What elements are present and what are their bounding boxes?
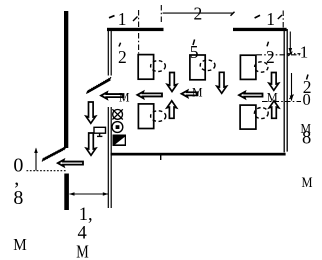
right dimension line 1 [288, 32, 301, 57]
flow arrow up center [167, 101, 177, 119]
wall top right segment [233, 28, 287, 31]
svg-text:5: 5 [190, 42, 199, 62]
control panel symbol [94, 127, 106, 136]
svg-text:М: М [192, 85, 203, 100]
flow arrow down right [269, 73, 279, 91]
dash-dot tick above right wall [282, 11, 284, 30]
wall right double line [284, 29, 287, 152]
machine R4 rotor dashed ellipse [151, 111, 166, 122]
wall bottom [111, 153, 286, 156]
flow arrow down center1 [167, 73, 177, 92]
label apostrophe machine R3 [267, 42, 269, 47]
label apostrophe machine R1 [119, 43, 121, 47]
machine R2 rotor dashed ellipse [200, 60, 215, 71]
svg-text:М: М [302, 175, 313, 191]
svg-text:1,: 1, [79, 205, 93, 225]
dimension slash top-right [278, 15, 282, 19]
dash-dot tick top center-left [160, 5, 162, 24]
machine R3 rectangle [240, 55, 256, 79]
dimension slash top right of 2 [231, 12, 235, 16]
flow arrow left exit door [58, 160, 83, 167]
dimension line 2 top [163, 12, 233, 14]
tick below bottom wall [160, 155, 162, 161]
svg-text:0: 0 [303, 90, 311, 109]
wall left outer lower [64, 174, 69, 211]
flow arrow down corridor2 [86, 133, 96, 155]
svg-text:М: М [76, 242, 89, 260]
bottom dimension line 1.4 [69, 192, 108, 196]
dash-dot line from dim to machine R1 [138, 10, 140, 54]
svg-text:М: М [119, 90, 130, 105]
svg-text:8: 8 [13, 187, 23, 209]
flow arrow up right [269, 101, 279, 119]
machine R1 rotor dashed ellipse [151, 61, 166, 72]
lamp symbol circle-X [112, 109, 122, 119]
flow arrow left through door M [101, 92, 124, 99]
flow arrow left center M [182, 91, 198, 98]
label apostrophe machine R2 [193, 40, 195, 46]
left door dimension line [27, 148, 67, 171]
door leaf hatched left wall [42, 146, 66, 161]
wall corridor double line lower [108, 107, 111, 208]
socket symbol circle-dot [112, 122, 123, 133]
machine R5 rectangle [240, 105, 256, 129]
machine R1 rectangle [138, 55, 153, 80]
dash-dot line machine R5 to right dimension [262, 101, 301, 103]
dimension tick top-left [109, 16, 115, 18]
machine R2 rectangle [190, 55, 205, 80]
machine R3 rotor dashed ellipse [255, 62, 268, 72]
dimension slash top-left [133, 17, 138, 22]
wall top left segment [107, 28, 164, 31]
door leaf hatched upper corridor [87, 77, 111, 94]
wall corridor double line upper [108, 30, 111, 76]
flow arrow down corridor1 [86, 102, 96, 123]
svg-text:2: 2 [266, 47, 275, 67]
svg-text:4: 4 [78, 223, 87, 243]
right dimension line 2 [290, 73, 294, 101]
machine R5 rotor dashed ellipse [254, 108, 268, 119]
machine R4 rectangle [138, 104, 153, 129]
svg-text:1: 1 [118, 9, 127, 29]
right dimension label comma [307, 75, 309, 80]
svg-text:2: 2 [118, 47, 127, 67]
dash-dot line machine R3 to right dimension [257, 54, 301, 56]
svg-text:8: 8 [302, 128, 311, 148]
svg-text:М: М [13, 235, 26, 254]
svg-text:1: 1 [266, 9, 275, 29]
svg-text:2: 2 [194, 4, 203, 24]
flow arrow down center2 [217, 72, 227, 93]
wall left outer upper [64, 11, 68, 148]
half-filled square symbol [113, 135, 127, 147]
dimension tick top-right [255, 15, 260, 18]
flow arrow left right M [239, 92, 263, 99]
flow arrow left mid-left [137, 92, 162, 99]
svg-text:1: 1 [300, 43, 309, 62]
